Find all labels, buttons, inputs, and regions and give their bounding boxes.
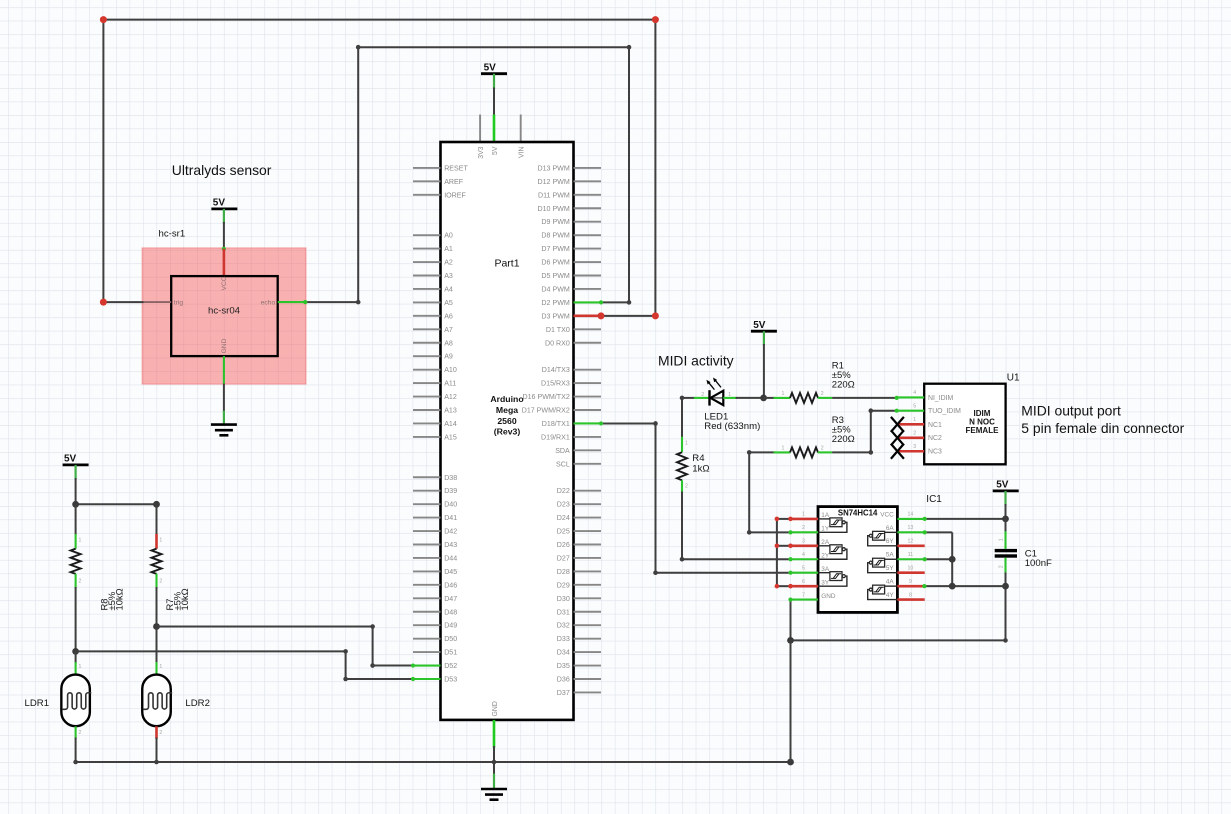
- inverter U1A: [818, 518, 830, 520]
- svg-text:D31: D31: [557, 608, 570, 616]
- svg-text:D53: D53: [444, 676, 457, 684]
- svg-text:hc-sr1: hc-sr1: [159, 229, 186, 240]
- svg-text:5V: 5V: [64, 454, 77, 465]
- svg-text:AREF: AREF: [444, 178, 464, 186]
- LDR1: [61, 675, 90, 727]
- junction dot LDR2 node: [153, 623, 160, 630]
- wire trig to sensor: [103, 301, 143, 303]
- svg-text:D7 PWM: D7 PWM: [541, 245, 569, 253]
- svg-text:GND: GND: [821, 593, 836, 600]
- pin NC2 stub (red) + X: [897, 436, 924, 439]
- pin D1 TX0: [574, 328, 602, 330]
- svg-text:VCC: VCC: [880, 511, 894, 518]
- svg-text:4: 4: [802, 552, 805, 558]
- pin A10: [413, 369, 441, 371]
- svg-text:D22: D22: [557, 487, 570, 495]
- pin D29: [574, 584, 602, 586]
- pin D51: [413, 651, 441, 653]
- svg-text:5: 5: [802, 566, 805, 572]
- svg-text:2: 2: [685, 484, 688, 490]
- svg-text:220Ω: 220Ω: [832, 434, 855, 445]
- wire R4 to IC 2Y: [681, 492, 683, 560]
- wire echo bus top: [358, 46, 629, 48]
- svg-text:MIDI output port: MIDI output port: [1021, 402, 1121, 418]
- svg-text:2: 2: [701, 392, 704, 398]
- svg-text:1: 1: [159, 664, 162, 670]
- wire branch to R7: [76, 503, 157, 505]
- svg-text:D52: D52: [444, 662, 457, 670]
- svg-text:hc-sr04: hc-sr04: [208, 306, 241, 317]
- svg-text:D46: D46: [444, 581, 457, 589]
- svg-text:D42: D42: [444, 528, 457, 536]
- pin D37: [574, 691, 602, 693]
- pin VIN stub: [520, 115, 522, 143]
- pin A9: [413, 355, 441, 357]
- pin D47: [413, 597, 441, 599]
- pin D0 RX0: [574, 342, 602, 344]
- wire echo to D2 pin: [601, 301, 629, 303]
- wire GND bus to C1 bottom: [791, 639, 1006, 641]
- svg-text:220Ω: 220Ω: [832, 380, 855, 391]
- pin D44: [413, 557, 441, 559]
- svg-text:D1 TX0: D1 TX0: [546, 326, 570, 334]
- svg-text:D9 PWM: D9 PWM: [541, 218, 569, 226]
- svg-text:RESET: RESET: [444, 164, 468, 172]
- svg-text:10: 10: [908, 566, 914, 572]
- svg-text:SN74HC14: SN74HC14: [838, 508, 878, 517]
- pin A14: [413, 422, 441, 424]
- wire sensor GND down: [223, 384, 225, 412]
- pin A7: [413, 328, 441, 330]
- svg-text:1A: 1A: [821, 512, 830, 519]
- pin 6Y (IC1-12): [897, 544, 924, 547]
- svg-text:N NOC: N NOC: [969, 418, 995, 427]
- pin D35: [574, 665, 602, 667]
- wire 5V to VCC: [223, 209, 225, 224]
- svg-text:D2 PWM: D2 PWM: [541, 299, 569, 307]
- svg-text:D47: D47: [444, 595, 457, 603]
- pin D39: [413, 490, 441, 492]
- pin D19/RX1: [574, 436, 602, 438]
- ground symbol main: [481, 788, 507, 791]
- svg-text:A8: A8: [444, 339, 453, 347]
- svg-text:(Rev3): (Rev3): [494, 427, 521, 437]
- pin D3 PWM: [574, 315, 602, 318]
- svg-text:Mega: Mega: [496, 405, 518, 415]
- pin D33: [574, 638, 602, 640]
- wire 5V to arduino: [493, 74, 495, 89]
- svg-text:D36: D36: [557, 676, 570, 684]
- LED1: [682, 397, 695, 399]
- junction dots 5V branch: [72, 501, 79, 508]
- resistor R8: [75, 504, 77, 535]
- power 5V ldr: [63, 463, 89, 466]
- svg-text:IDIM: IDIM: [974, 409, 991, 418]
- svg-text:D4 PWM: D4 PWM: [541, 285, 569, 293]
- svg-text:1: 1: [79, 664, 82, 670]
- pin D5 PWM: [574, 275, 602, 277]
- svg-text:D50: D50: [444, 635, 457, 643]
- svg-text:D12 PWM: D12 PWM: [537, 178, 569, 186]
- svg-text:4: 4: [913, 390, 916, 396]
- ground symbol sensor: [211, 423, 237, 426]
- pin GND stub (green): [223, 356, 225, 384]
- wire R7 to LDR2: [156, 587, 158, 627]
- svg-text:3Y: 3Y: [821, 579, 830, 586]
- pin 3A (IC1-5): [791, 572, 819, 574]
- wire echo riser: [357, 47, 359, 302]
- pin 5Y (IC1-10): [897, 571, 924, 574]
- pin D11 PWM: [574, 194, 602, 196]
- svg-text:1: 1: [782, 391, 785, 397]
- inverter U1B: [818, 545, 830, 547]
- svg-text:2A: 2A: [821, 539, 830, 546]
- wire tie 1A-2A-3Y: [777, 518, 791, 520]
- svg-text:5V: 5V: [213, 198, 226, 209]
- svg-text:Ultralyds sensor: Ultralyds sensor: [172, 162, 272, 178]
- pin TUO_IDIM stub (green): [897, 410, 925, 412]
- svg-text:D51: D51: [444, 649, 457, 657]
- wire R3 to MIDI_OUT: [832, 451, 871, 453]
- svg-text:D39: D39: [444, 487, 457, 495]
- junction red dots tie net: [775, 517, 780, 522]
- pin D15/RX3: [574, 382, 602, 384]
- connector U1 body: [924, 384, 1005, 465]
- pin SDA: [574, 449, 602, 451]
- svg-text:A7: A7: [444, 326, 453, 334]
- svg-text:2: 2: [79, 730, 82, 736]
- pin D30: [574, 597, 602, 599]
- svg-text:trig: trig: [174, 300, 184, 307]
- svg-text:2Y: 2Y: [821, 552, 830, 559]
- svg-text:1: 1: [802, 512, 805, 518]
- pin D38: [413, 476, 441, 478]
- wire R8 to LDR1: [75, 587, 77, 651]
- svg-text:1: 1: [685, 441, 688, 447]
- pin D9 PWM: [574, 221, 602, 223]
- svg-text:GND: GND: [492, 701, 499, 716]
- wire LDR2 node to D52: [157, 626, 373, 628]
- svg-text:NC1: NC1: [928, 422, 942, 429]
- pin D4 PWM: [574, 288, 602, 290]
- svg-text:A15: A15: [444, 433, 457, 441]
- svg-text:NC3: NC3: [928, 449, 942, 456]
- svg-text:3V3: 3V3: [478, 146, 485, 158]
- svg-text:D19/RX1: D19/RX1: [541, 433, 570, 441]
- pin D43: [413, 544, 441, 546]
- svg-text:5V: 5V: [492, 146, 499, 155]
- svg-text:D30: D30: [557, 595, 570, 603]
- pin A5: [413, 301, 441, 303]
- svg-text:D38: D38: [444, 474, 457, 482]
- wire VCC to 5V: [925, 518, 1006, 520]
- svg-text:5A: 5A: [886, 552, 895, 559]
- svg-text:A1: A1: [444, 245, 453, 253]
- wire arduino GND down: [493, 746, 495, 775]
- pin A6: [413, 315, 441, 317]
- svg-text:D0 RX0: D0 RX0: [545, 339, 570, 347]
- pin GND bottom stub (green): [493, 720, 496, 748]
- wire R3 to IC 1Y: [748, 452, 750, 532]
- svg-text:D37: D37: [557, 689, 570, 697]
- wire R1 to MIDI_IN: [832, 397, 898, 399]
- pin A15: [413, 436, 441, 438]
- bendpoints echo net: [356, 300, 361, 305]
- wire 5V down: [74, 465, 76, 480]
- svg-text:LDR1: LDR1: [25, 698, 50, 709]
- svg-text:D33: D33: [557, 635, 570, 643]
- pin D32: [574, 624, 602, 626]
- svg-text:D27: D27: [557, 554, 570, 562]
- pin 1A (IC1-1): [791, 518, 819, 521]
- svg-text:D14/TX3: D14/TX3: [542, 366, 570, 374]
- pin 5A (IC1-11): [897, 558, 924, 560]
- pin 5V stub (green): [493, 115, 496, 143]
- svg-text:Part1: Part1: [494, 258, 519, 270]
- pin 3V3 stub: [479, 115, 481, 143]
- svg-text:2: 2: [159, 579, 162, 585]
- svg-text:D35: D35: [557, 662, 570, 670]
- svg-text:D11 PWM: D11 PWM: [538, 191, 570, 199]
- svg-text:D28: D28: [557, 568, 570, 576]
- svg-text:D25: D25: [557, 528, 570, 536]
- pin D46: [413, 584, 441, 586]
- pin A1: [413, 248, 441, 250]
- resistor R4: [681, 437, 683, 453]
- svg-text:6Y: 6Y: [886, 538, 895, 545]
- svg-text:D49: D49: [444, 622, 457, 630]
- pin D53: [413, 678, 441, 680]
- wire echo down to D2: [628, 47, 630, 302]
- svg-text:IC1: IC1: [926, 494, 942, 505]
- svg-text:5 pin female din connector: 5 pin female din connector: [1021, 420, 1184, 436]
- svg-text:D5 PWM: D5 PWM: [541, 272, 569, 280]
- svg-text:GND: GND: [221, 338, 228, 353]
- svg-text:3: 3: [802, 539, 805, 545]
- svg-text:5Y: 5Y: [886, 565, 895, 572]
- wire ground bus bottom: [76, 761, 791, 763]
- svg-text:A12: A12: [444, 393, 457, 401]
- svg-text:IOREF: IOREF: [444, 191, 466, 199]
- svg-text:100nF: 100nF: [1025, 558, 1052, 569]
- svg-text:11: 11: [908, 552, 913, 558]
- pin D36: [574, 678, 602, 680]
- pin D50: [413, 638, 441, 640]
- svg-text:D16 PWM/TX2: D16 PWM/TX2: [522, 393, 569, 401]
- pin A8: [413, 342, 441, 344]
- svg-text:D44: D44: [444, 554, 457, 562]
- svg-text:NC2: NC2: [928, 435, 942, 442]
- pin 4A (IC1-9): [897, 585, 924, 588]
- power 5V arduino top: [481, 72, 507, 75]
- svg-text:1kΩ: 1kΩ: [692, 464, 709, 475]
- pin A4: [413, 288, 441, 290]
- svg-text:A13: A13: [444, 407, 457, 415]
- junction dot LED/5V/R1: [760, 395, 767, 402]
- svg-text:10kΩ: 10kΩ: [114, 588, 125, 610]
- pin 3Y (IC1-6): [791, 585, 819, 588]
- svg-text:TUO_IDIM: TUO_IDIM: [928, 408, 961, 415]
- pin VCC stub (red): [223, 249, 226, 277]
- svg-text:5V: 5V: [753, 320, 766, 331]
- pin D52: [413, 664, 441, 666]
- svg-text:1: 1: [998, 538, 1004, 541]
- svg-text:R4: R4: [692, 453, 705, 464]
- pin D16 PWM/TX2: [574, 396, 602, 398]
- pin D25: [574, 530, 602, 532]
- svg-text:A10: A10: [444, 366, 457, 374]
- pin NI_IDIM stub (green): [897, 396, 925, 398]
- pin A13: [413, 409, 441, 411]
- svg-text:12: 12: [908, 539, 914, 545]
- svg-text:MIDI activity: MIDI activity: [658, 353, 734, 369]
- svg-text:6: 6: [802, 579, 805, 585]
- svg-text:D8 PWM: D8 PWM: [541, 232, 569, 240]
- svg-text:2: 2: [802, 525, 805, 531]
- svg-text:1: 1: [79, 538, 82, 544]
- svg-text:D3 PWM: D3 PWM: [541, 312, 569, 320]
- svg-text:D10 PWM: D10 PWM: [537, 205, 569, 213]
- svg-text:A3: A3: [444, 272, 453, 280]
- svg-text:D6 PWM: D6 PWM: [541, 259, 569, 267]
- wire IC GND pin down: [790, 600, 792, 641]
- pin NC1 stub (red) + X: [897, 423, 924, 426]
- pin D48: [413, 611, 441, 613]
- pin echo stub (green): [278, 301, 306, 303]
- op-amp U? Arduino Part1 body: [441, 142, 574, 720]
- svg-text:10kΩ: 10kΩ: [179, 588, 190, 610]
- pin 4Y (IC1-8): [897, 598, 924, 601]
- svg-text:U1: U1: [1007, 373, 1020, 384]
- svg-text:2: 2: [998, 565, 1004, 568]
- power 5V sensor: [211, 207, 237, 210]
- svg-text:D26: D26: [557, 541, 570, 549]
- svg-text:9: 9: [909, 579, 912, 585]
- highlight halo hc-sr1: [142, 248, 306, 384]
- pin D22: [574, 490, 602, 492]
- pin D45: [413, 570, 441, 572]
- svg-text:A2: A2: [444, 259, 453, 267]
- pin SCL: [574, 463, 602, 465]
- svg-text:A6: A6: [444, 312, 453, 320]
- svg-text:1Y: 1Y: [821, 526, 830, 533]
- pin D27: [574, 557, 602, 559]
- pin A3: [413, 275, 441, 277]
- wire echo to riser: [305, 301, 358, 303]
- pin 1Y (IC1-2): [791, 531, 819, 533]
- svg-text:LDR2: LDR2: [185, 698, 210, 709]
- svg-text:D48: D48: [444, 608, 457, 616]
- svg-text:FEMALE: FEMALE: [966, 426, 1000, 435]
- resistor R3: [749, 451, 775, 453]
- pin D41: [413, 517, 441, 519]
- pin A12: [413, 396, 441, 398]
- svg-text:D24: D24: [557, 514, 570, 522]
- junction dot C1 bottom: [1002, 583, 1009, 590]
- svg-text:A11: A11: [444, 380, 456, 388]
- pin D12 PWM: [574, 180, 602, 182]
- pin A0: [413, 234, 441, 236]
- inverter U1E: [885, 558, 898, 560]
- wire trig to D3: [601, 315, 655, 317]
- pin D2 PWM: [574, 301, 602, 303]
- svg-text:2560: 2560: [497, 416, 516, 426]
- junction red dots trig net: [100, 16, 107, 23]
- pin A11: [413, 382, 441, 384]
- power 5V IC: [993, 489, 1019, 492]
- svg-text:D45: D45: [444, 568, 457, 576]
- pin 2Y (IC1-4): [791, 558, 819, 560]
- svg-text:2: 2: [159, 730, 162, 736]
- svg-text:4A: 4A: [886, 579, 895, 586]
- svg-text:5V: 5V: [996, 480, 1009, 491]
- svg-text:7: 7: [802, 592, 805, 598]
- svg-text:2: 2: [913, 431, 916, 437]
- inverter U1C: [818, 572, 830, 574]
- pin D31: [574, 611, 602, 613]
- pin IOREF: [413, 194, 441, 196]
- svg-text:5: 5: [913, 403, 916, 409]
- svg-text:D43: D43: [444, 541, 457, 549]
- wire GND junction down to bus: [790, 640, 792, 762]
- pin D17 PWM/RX2: [574, 409, 602, 411]
- pin D28: [574, 570, 602, 572]
- pin D34: [574, 651, 602, 653]
- wire LED cathode down to R4: [681, 398, 683, 438]
- power 5V led: [751, 330, 777, 333]
- pin D7 PWM: [574, 248, 602, 250]
- svg-text:D18/TX1: D18/TX1: [542, 420, 570, 428]
- pin trig stub: [144, 301, 172, 303]
- svg-text:13: 13: [908, 525, 914, 531]
- pin D42: [413, 530, 441, 532]
- svg-text:SCL: SCL: [556, 460, 570, 468]
- svg-text:1: 1: [159, 538, 162, 544]
- pin 6A (IC1-13): [897, 531, 924, 533]
- svg-text:2: 2: [821, 391, 824, 397]
- pin D13 PWM: [574, 167, 602, 169]
- LDR2: [142, 675, 171, 727]
- component hc-sr04 body: [171, 276, 278, 356]
- svg-text:D17 PWM/RX2: D17 PWM/RX2: [522, 407, 570, 415]
- svg-text:NI_IDIM: NI_IDIM: [928, 395, 954, 402]
- svg-text:A9: A9: [444, 353, 453, 361]
- svg-text:Arduino: Arduino: [490, 394, 523, 404]
- pin 2A (IC1-3): [791, 544, 819, 547]
- capacitor C1: [1005, 519, 1007, 533]
- svg-text:D15/RX3: D15/RX3: [541, 380, 570, 388]
- svg-text:1: 1: [782, 446, 785, 452]
- wire D18/TX1 to IC 3A: [601, 422, 656, 424]
- inverter U1D: [885, 585, 898, 587]
- junction dot LDR1 node: [72, 648, 79, 655]
- pin AREF: [413, 180, 441, 182]
- svg-text:echo: echo: [261, 300, 276, 307]
- svg-text:A0: A0: [444, 232, 453, 240]
- pin GND (IC1-7): [791, 599, 819, 601]
- pin A2: [413, 261, 441, 263]
- svg-text:D40: D40: [444, 501, 457, 509]
- svg-text:6A: 6A: [886, 525, 895, 532]
- LED1 emission arrows: [709, 383, 715, 390]
- pin D8 PWM: [574, 234, 602, 236]
- IC1 body SN74HC14: [818, 507, 897, 613]
- svg-text:2: 2: [79, 579, 82, 585]
- svg-text:VCC: VCC: [221, 276, 228, 290]
- svg-text:A14: A14: [444, 420, 457, 428]
- svg-text:4Y: 4Y: [886, 592, 895, 599]
- resistor R1: [774, 397, 791, 399]
